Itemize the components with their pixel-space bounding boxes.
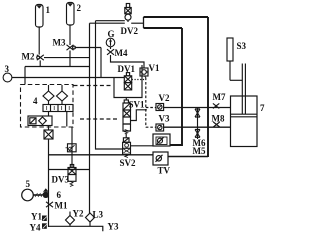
svg-text:2: 2 — [77, 3, 82, 13]
svg-text:Y1: Y1 — [31, 212, 42, 222]
svg-text:DV2: DV2 — [121, 26, 139, 36]
svg-text:M5: M5 — [193, 146, 206, 156]
svg-text:M1: M1 — [55, 201, 68, 211]
svg-text:SV1: SV1 — [129, 100, 146, 110]
svg-text:M8: M8 — [212, 113, 225, 123]
svg-text:5: 5 — [26, 179, 31, 189]
svg-text:V3: V3 — [159, 113, 170, 123]
svg-text:SV2: SV2 — [120, 158, 137, 168]
svg-text:L3: L3 — [93, 210, 104, 220]
svg-text:6: 6 — [57, 190, 62, 200]
svg-text:M4: M4 — [115, 48, 128, 58]
svg-text:7: 7 — [260, 103, 265, 113]
svg-text:4: 4 — [33, 96, 38, 106]
svg-text:1: 1 — [46, 5, 51, 15]
svg-text:M3: M3 — [53, 38, 66, 48]
svg-text:M7: M7 — [213, 92, 226, 102]
svg-text:M2: M2 — [22, 52, 35, 62]
svg-text:V1: V1 — [149, 63, 160, 73]
svg-text:3: 3 — [5, 64, 10, 74]
svg-text:Y3: Y3 — [108, 222, 119, 232]
svg-text:DV1: DV1 — [118, 64, 136, 74]
svg-text:TV: TV — [158, 166, 171, 176]
svg-text:G: G — [108, 29, 115, 39]
svg-text:V2: V2 — [159, 93, 170, 103]
svg-text:DV3: DV3 — [52, 175, 70, 185]
svg-text:S3: S3 — [237, 41, 247, 51]
svg-text:Y2: Y2 — [73, 209, 84, 219]
svg-text:Y4: Y4 — [30, 223, 41, 233]
